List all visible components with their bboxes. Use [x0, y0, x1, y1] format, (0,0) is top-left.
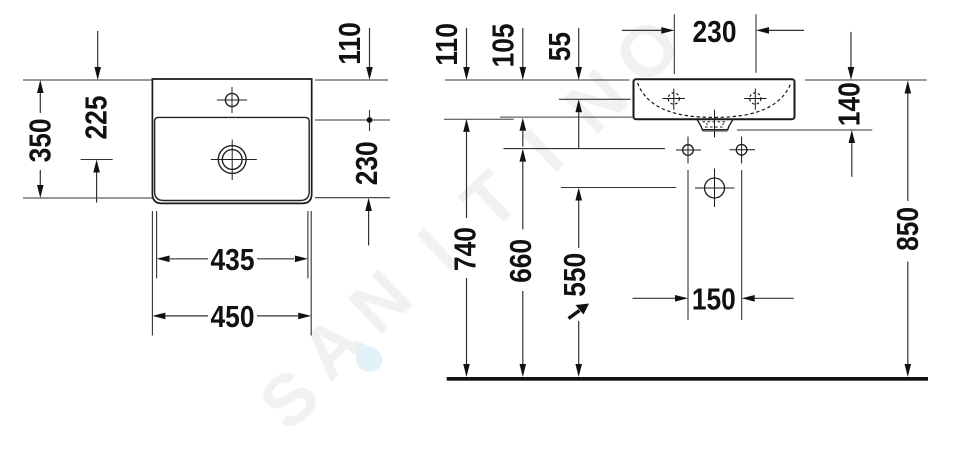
dim 110 left-view arrow [369, 28, 371, 67]
dim 850 [907, 94, 909, 365]
svg-text:225: 225 [80, 96, 114, 140]
label 435 [211, 243, 255, 277]
tap hole left crosshair [663, 89, 685, 110]
tap hole left (dashed) [668, 93, 679, 104]
level line 660 / holes [504, 148, 666, 150]
label 230 left view [350, 141, 384, 185]
extension line bottom [23, 197, 152, 199]
svg-text:435: 435 [211, 243, 255, 277]
mounting hole right crosshair [730, 137, 756, 164]
dim 740 [466, 132, 468, 364]
dim 450 [166, 315, 299, 317]
adjustable arrow symbol [569, 311, 580, 319]
svg-text:110: 110 [430, 23, 464, 65]
drain outer circle [218, 146, 246, 174]
chain dot [367, 117, 373, 123]
level line 550 / siphon [561, 187, 676, 189]
dim 550 [578, 201, 580, 365]
label 55 [543, 32, 577, 61]
svg-text:105: 105 [486, 23, 520, 67]
label 225 [80, 96, 114, 140]
drain inner circle [222, 150, 242, 170]
dim 225 top arrow [97, 31, 99, 67]
drain centerline [714, 110, 716, 138]
dim 140 top arrow [850, 32, 852, 67]
svg-text:110: 110 [333, 22, 367, 64]
svg-text:450: 450 [211, 300, 255, 334]
mounting hole left [683, 145, 694, 156]
washbasin top view outer outline [152, 79, 311, 203]
svg-text:350: 350 [23, 118, 57, 162]
dim 435 [170, 258, 294, 260]
faucet hole [225, 93, 238, 106]
dim 150 ext lines [688, 170, 742, 320]
230 bottom arrow [368, 211, 370, 246]
tap hole right crosshair [744, 89, 766, 110]
dim 140 bottom ext line [737, 129, 872, 131]
label 550 [558, 253, 592, 297]
dim 150 arrows [633, 297, 794, 299]
label 740 [449, 227, 483, 271]
drain fitting bottom [702, 129, 728, 131]
dim 230 arrows [622, 29, 804, 31]
svg-text:550: 550 [558, 253, 592, 297]
tap hole right (dashed) [750, 93, 761, 104]
dim 660 [522, 162, 524, 364]
svg-text:140: 140 [833, 82, 867, 126]
label 450 [211, 300, 255, 334]
floor line [447, 377, 928, 381]
label 350 [23, 118, 57, 162]
long rim line y80 mid [315, 79, 630, 81]
svg-text:740: 740 [449, 227, 483, 271]
svg-text:I: I [509, 115, 579, 187]
extension line top [23, 79, 152, 81]
chain dot line y120 [315, 110, 390, 131]
label 150 [692, 282, 736, 316]
level lines 105/110 [444, 117, 634, 119]
label 660 [504, 239, 538, 283]
washbasin front view outline [634, 79, 795, 119]
dim 105 arrow up (below line) [522, 131, 524, 147]
svg-text:230: 230 [693, 15, 737, 49]
svg-text:55: 55 [543, 32, 577, 61]
svg-text:850: 850 [891, 207, 925, 251]
drain fitting dashes [703, 122, 728, 127]
svg-text:150: 150 [692, 282, 736, 316]
svg-text:660: 660 [504, 239, 538, 283]
watermark SANITINO [245, 3, 696, 445]
label 105 [486, 23, 520, 67]
dim 350 line [39, 84, 41, 194]
svg-text:230: 230 [350, 141, 384, 185]
label 850 [891, 207, 925, 251]
mounting hole right [736, 145, 747, 156]
label 110 [430, 23, 464, 65]
ext lines below basin [152, 211, 311, 336]
mounting hole left crosshair [676, 137, 701, 164]
label 140 [833, 82, 867, 126]
siphon crosshair [695, 169, 735, 208]
rim line right of basin [805, 79, 927, 81]
label 110 left view [333, 22, 367, 64]
bottom line y198 right chain [315, 197, 390, 199]
dim 110 arrow down [466, 28, 468, 67]
dim 55 arrow up (below line) [578, 112, 580, 148]
siphon circle [705, 178, 725, 198]
level line 55 [559, 98, 631, 100]
dim 225 tick at drain level [81, 159, 113, 161]
watermark drop [354, 340, 383, 372]
washbasin top view inner bowl rim [155, 117, 310, 200]
inner bowl dashed curve [638, 83, 792, 117]
dim 55 arrow down [578, 28, 580, 67]
drain crosshair [211, 140, 257, 181]
faucet hole crosshair [217, 87, 247, 113]
label 230 [693, 15, 737, 49]
dim 105 arrow down [522, 28, 524, 67]
dim 230 ext lines [674, 14, 756, 74]
dim 225 bottom arrow [96, 173, 98, 203]
drain fitting under basin [697, 120, 732, 130]
dim 140 bottom arrow [851, 143, 853, 177]
